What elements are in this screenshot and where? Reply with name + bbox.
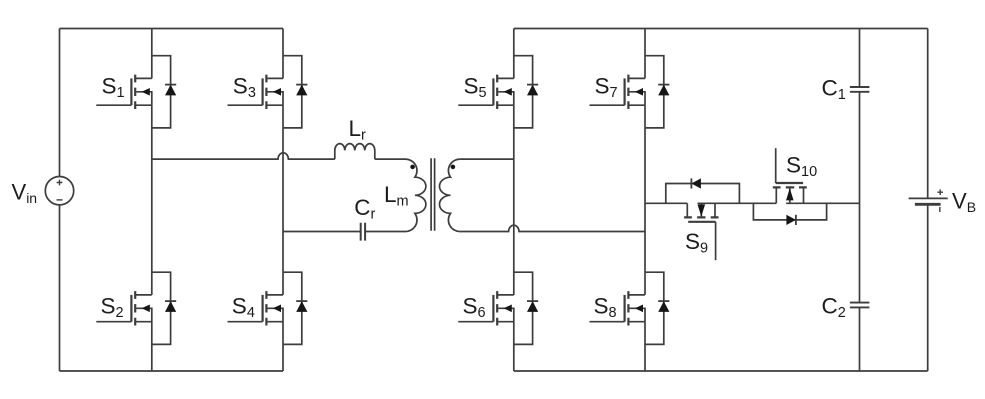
transformer secondary dot bbox=[451, 165, 456, 170]
wire: input top bus bbox=[60, 28, 284, 30]
transistor S9 gate bar bbox=[688, 221, 715, 223]
transistor S9 gate lead bbox=[715, 222, 717, 260]
transistor S8 body arrow bbox=[635, 305, 643, 313]
diode D-S4 cathode bar bbox=[296, 300, 307, 302]
transistor S7 gate bar bbox=[623, 78, 625, 105]
diode D-S3 cathode bar bbox=[296, 84, 307, 86]
capacitor C2 plates bbox=[850, 303, 870, 308]
wire: leg4 middle (S7 source to S8 drain) bbox=[644, 105, 646, 295]
diode D-S1 body-diode branch wire bbox=[152, 56, 171, 128]
transistor S2 gate bar bbox=[130, 295, 132, 322]
wire: leg4 top (S7 drain to top bus) bbox=[644, 29, 646, 79]
transistor S4 gate lead bbox=[228, 321, 263, 323]
source Vin plus sign bbox=[57, 180, 63, 186]
transistor S6 drain stub bbox=[497, 294, 514, 296]
diode D-S8 triangle bbox=[658, 301, 669, 312]
wire: left rail upper segment bbox=[59, 29, 61, 177]
transistor S3 source stub bbox=[266, 104, 283, 106]
transistor S8 drain stub bbox=[628, 294, 645, 296]
wire: S9 source to S10 source bbox=[698, 202, 777, 204]
battery VB negative plate bbox=[915, 203, 941, 206]
diode D-S2 cathode bar bbox=[165, 300, 176, 302]
transistor S5 source stub bbox=[497, 104, 514, 106]
wire: leg4 midpoint to S9 drain bbox=[645, 202, 687, 204]
transistor S1 body arrow bbox=[142, 88, 150, 96]
diode D-S6 cathode bar bbox=[527, 300, 538, 302]
transistor S2 gate lead bbox=[96, 321, 131, 323]
transistor S5 drain stub bbox=[497, 77, 514, 79]
diode D-S7 cathode bar bbox=[658, 84, 669, 86]
transistor S10 channel bar bbox=[773, 186, 807, 188]
wire: S10 drain to capacitor rail bbox=[786, 202, 859, 204]
wire: input bottom bus bbox=[60, 370, 284, 372]
transistor S1 gate bar bbox=[130, 78, 132, 105]
transformer core lines bbox=[431, 158, 435, 231]
transistor S8 body lead bbox=[629, 308, 645, 321]
transistor S5 body arrow bbox=[504, 88, 512, 96]
transistor S6 gate lead bbox=[458, 321, 493, 323]
transistor S4 gate bar bbox=[262, 295, 264, 322]
diode D-S8 cathode bar bbox=[658, 300, 669, 302]
capacitor C1 plates bbox=[850, 87, 870, 92]
wire: leg2 top (S3 drain to top bus) bbox=[282, 29, 284, 79]
wire: output top bus bbox=[514, 28, 928, 30]
transistor S9 body arrow bbox=[698, 204, 706, 216]
transistor S2 source stub bbox=[135, 321, 152, 323]
transistor S2 drain stub bbox=[135, 294, 152, 296]
diode D-S8 body-diode branch wire bbox=[645, 272, 664, 344]
inductor/winding primary Lm bbox=[405, 159, 426, 231]
diode D-S3 body-diode branch wire bbox=[283, 56, 302, 128]
transistor S3 channel bar bbox=[265, 75, 267, 109]
diode D-S1 triangle bbox=[165, 85, 176, 96]
transistor S3 body lead bbox=[267, 92, 283, 105]
battery VB minus tick bbox=[939, 207, 941, 212]
transistor S1 drain stub bbox=[135, 77, 152, 79]
wire: secondary top to leg3 midpoint bbox=[460, 158, 513, 160]
transistor S7 body lead bbox=[629, 92, 645, 105]
wire: capacitor rail lower (C2 to bottom bus) bbox=[859, 307, 861, 371]
transistor S8 gate lead bbox=[590, 321, 625, 323]
diode D-S10 triangle bbox=[786, 215, 796, 225]
wire: capacitor rail upper (top bus to C1) bbox=[859, 29, 861, 88]
transistor S6 body lead bbox=[498, 308, 514, 321]
transistor S7 source stub bbox=[628, 104, 645, 106]
diode D-S6 triangle bbox=[527, 301, 538, 312]
battery VB positive plate bbox=[909, 197, 948, 199]
transistor S8 gate bar bbox=[623, 295, 625, 322]
diode D-S5 body-diode branch wire bbox=[514, 56, 533, 128]
transistor S9 body stub bbox=[700, 203, 702, 216]
transistor S6 source stub bbox=[497, 321, 514, 323]
diode D-S6 body-diode branch wire bbox=[514, 272, 533, 344]
diode D-S5 triangle bbox=[527, 85, 538, 96]
diode D-S7 triangle bbox=[658, 85, 669, 96]
transistor S2 body arrow bbox=[142, 305, 150, 313]
wire: left rail lower segment bbox=[59, 205, 61, 371]
battery VB plus sign bbox=[937, 189, 943, 195]
diode D-S7 body-diode branch wire bbox=[645, 56, 664, 128]
diode D-S2 body-diode branch wire bbox=[152, 272, 171, 344]
diode D-S2 triangle bbox=[165, 301, 176, 312]
transistor S9 drain stub bbox=[686, 203, 688, 217]
diode D-S9 cathode bar bbox=[690, 178, 692, 188]
transistor S1 body lead bbox=[136, 92, 152, 105]
transistor S4 body arrow bbox=[273, 305, 281, 313]
capacitor Cr plates bbox=[361, 223, 365, 241]
transistor S10 drain stub bbox=[803, 187, 805, 203]
wire: right rail lower segment bbox=[927, 204, 929, 371]
transistor S3 gate lead bbox=[228, 104, 263, 106]
diode D-S9 body-diode branch wire bbox=[666, 184, 740, 204]
transistor S7 channel bar bbox=[627, 75, 629, 109]
transistor S5 gate lead bbox=[458, 104, 493, 106]
wire: leg3 top (S5 drain to top bus) bbox=[513, 29, 515, 79]
wire: leg3 bottom (S6 source to bottom bus) bbox=[513, 322, 515, 371]
transistor S8 channel bar bbox=[627, 291, 629, 325]
transistor S1 source stub bbox=[135, 104, 152, 106]
transistor S2 channel bar bbox=[134, 291, 136, 325]
transistor S6 gate bar bbox=[492, 295, 494, 322]
diode D-S4 triangle bbox=[296, 301, 307, 312]
transistor S2 body lead bbox=[136, 308, 152, 321]
source Vin minus sign bbox=[57, 199, 63, 201]
diode D-S5 cathode bar bbox=[527, 84, 538, 86]
transistor S4 channel bar bbox=[265, 291, 267, 325]
wire: leg1 bottom (S2 source to bottom bus) bbox=[151, 322, 153, 371]
transistor S10 gate bar bbox=[776, 182, 803, 184]
winding secondary bbox=[439, 159, 460, 231]
transistor S4 body lead bbox=[267, 308, 283, 321]
diode D-S4 body-diode branch wire bbox=[283, 272, 302, 344]
transistor S10 source stub bbox=[775, 187, 777, 203]
wire: leg2 bottom (S4 source to bottom bus) bbox=[282, 322, 284, 371]
wire: Lr to primary winding bbox=[375, 158, 405, 160]
transformer primary dot bbox=[410, 165, 415, 170]
transistor S6 channel bar bbox=[496, 291, 498, 325]
transistor S4 drain stub bbox=[266, 294, 283, 296]
transistor S3 drain stub bbox=[266, 77, 283, 79]
transistor S1 channel bar bbox=[134, 75, 136, 109]
transistor S8 source stub bbox=[628, 321, 645, 323]
transistor S1 gate lead bbox=[96, 104, 131, 106]
transistor S10 body arrow bbox=[786, 188, 794, 200]
diode D-S9 triangle bbox=[691, 178, 701, 188]
diode D-S10 cathode bar bbox=[795, 215, 797, 225]
transistor S5 gate bar bbox=[492, 78, 494, 105]
diode D-S3 triangle bbox=[296, 85, 307, 96]
transistor S10 body stub bbox=[789, 188, 791, 203]
transistor S4 source stub bbox=[266, 321, 283, 323]
transistor S7 body arrow bbox=[635, 88, 643, 96]
wire: leg2 midpoint to Cr left plate bbox=[283, 231, 361, 233]
diode D-S10 body-diode branch wire bbox=[753, 203, 826, 220]
transistor S6 body arrow bbox=[504, 305, 512, 313]
wire: leg4 bottom (S8 source to bottom bus) bbox=[644, 322, 646, 371]
source Vin circle bbox=[45, 177, 73, 205]
transistor S9 channel bar bbox=[684, 216, 718, 218]
transistor S5 body lead bbox=[498, 92, 514, 105]
transistor S3 gate bar bbox=[262, 78, 264, 105]
wire: Cr right plate to primary winding bottom bbox=[365, 231, 405, 233]
transistor S5 channel bar bbox=[496, 75, 498, 109]
diode D-S1 cathode bar bbox=[165, 84, 176, 86]
wire: right rail upper segment bbox=[927, 29, 929, 199]
wire: primary top wire from leg1 midpoint with crossover hop at leg2 bbox=[152, 153, 335, 159]
wire: leg1 middle (S1 source to S2 drain) bbox=[151, 105, 153, 295]
wire: leg1 top (S1 drain to top bus) bbox=[151, 29, 153, 79]
transistor S10 gate lead bbox=[775, 148, 777, 183]
wire: leg2 middle (S3 source to S4 drain) bbox=[282, 105, 284, 295]
wire: output bottom bus bbox=[514, 370, 928, 372]
wire: leg3 middle (S5 source to S6 drain) bbox=[513, 105, 515, 295]
inductor Lr bbox=[335, 144, 375, 160]
wire: secondary bottom to leg4 with crossover hop at leg3 bbox=[460, 225, 645, 231]
transistor S7 gate lead bbox=[590, 104, 625, 106]
transistor S9 source stub bbox=[714, 203, 716, 217]
transistor S3 body arrow bbox=[273, 88, 281, 96]
wire: capacitor rail middle (C1 to C2) bbox=[859, 92, 861, 303]
transistor S7 drain stub bbox=[628, 77, 645, 79]
